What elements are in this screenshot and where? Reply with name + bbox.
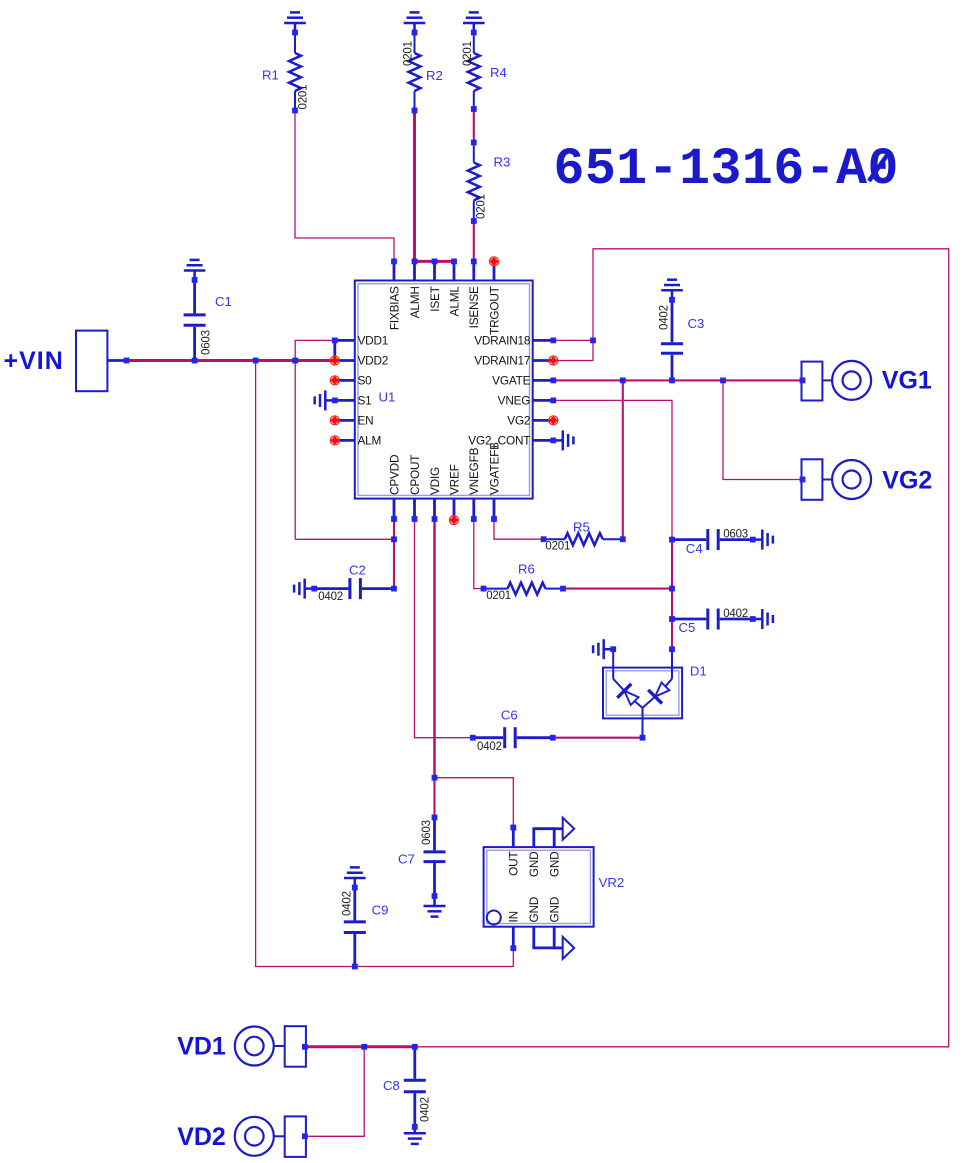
svg-text:FIXBIAS: FIXBIAS [387,286,401,330]
connector VG2 [802,459,872,500]
pin VDD2 stub [335,359,355,362]
capacitor C8 [404,1047,426,1127]
node VD2 branch [361,1044,367,1050]
node VG1 pin [800,378,806,384]
pin S0 stub [335,379,355,382]
svg-text:C3: C3 [688,316,705,331]
pin VDRAIN17 stub [533,359,554,362]
svg-text:VG2: VG2 [882,466,932,494]
node C1 bottom [192,358,198,364]
svg-text:VD1: VD1 [177,1033,226,1061]
capacitor C3 [661,300,683,381]
pin ALML stub [453,261,456,280]
connector VD2 [235,1116,306,1157]
wire R4 to R3 [473,109,475,143]
no-connect VDRAIN17 [549,356,558,365]
wire to VR2 OUT [435,778,514,828]
pin S1 stub [335,399,355,402]
no-connect VG2 [549,416,558,425]
svg-text:0201: 0201 [462,41,474,66]
node C3 top [669,297,675,303]
svg-text:0201: 0201 [297,85,309,110]
no-connect VREF [449,516,458,525]
pin VGATE stub [533,379,554,382]
connector VG1 [802,361,872,401]
ground (top of R1) [284,12,306,32]
wire +VIN to VDD2 [127,359,335,362]
wire R3 to ISENSE [473,221,475,261]
node R6 column junction [669,586,675,592]
op-amp U1 body [355,281,533,499]
svg-text:0201: 0201 [486,590,511,602]
svg-text:ALML: ALML [447,286,461,317]
svg-text:GND: GND [527,852,541,878]
wire bracket to arrow bottom [554,947,563,950]
ground (top of C1) [184,260,206,280]
svg-text:C4: C4 [686,541,703,556]
pin CPOUT stub [413,499,416,519]
node VNEG [550,398,556,404]
wire VNEGFB to R6 [474,519,484,589]
resistor R1 [289,33,301,111]
svg-text:CPOUT: CPOUT [408,455,422,495]
wire top bus ALMH-ISET-ALML [415,260,455,263]
wire to CPVDD column [295,538,394,540]
wire VDIG to C7 [433,778,435,818]
no-connect ALM [330,436,339,445]
node VDIG corner [432,775,438,781]
svg-text:VDRAIN17: VDRAIN17 [474,354,530,368]
svg-text:ALM: ALM [358,433,382,447]
node R6 right [560,586,566,592]
ground (C5 right) [753,609,773,629]
wire C4/C5 column down to D1 [671,540,673,650]
node C5 ground [750,616,756,622]
node C3 bottom [669,378,675,384]
svg-text:VREF: VREF [447,464,461,495]
wire bracket to arrow top [554,827,563,830]
svg-text:CPVDD: CPVDD [387,455,401,495]
wire CPOUT to C6 [415,519,473,738]
wire C6 to D1 [553,737,643,739]
svg-text:VDIG: VDIG [428,467,442,495]
resistor R4 [468,33,480,110]
pin ALMH stub [413,261,416,280]
svg-text:VDD2: VDD2 [358,354,389,368]
node R4 bottom [471,106,477,112]
wire VR2 IN to +VIN riser [256,361,514,967]
node D1 right [669,646,675,652]
pin TRGOUT stub [493,261,496,280]
node C9 top [352,885,358,891]
node C1 top [192,277,198,283]
node CPOUT [412,516,418,522]
node C9 bottom [352,964,358,970]
svg-text:U1: U1 [379,390,396,405]
svg-text:S1: S1 [358,393,372,407]
ground (top of R2) [404,12,426,32]
pin VG2_CONT stub [533,439,554,442]
svg-text:VG1: VG1 [882,366,932,394]
pin 1 marker circle of VR2 [487,911,501,925]
wire VGATE to VG1 [553,379,801,381]
svg-text:R6: R6 [518,562,535,577]
connector +VIN [76,331,107,392]
svg-text:R1: R1 [262,68,279,83]
node VD2 pin [302,1133,308,1139]
svg-text:0402: 0402 [342,891,354,916]
svg-text:0402: 0402 [477,741,502,753]
pin OUT stub [512,828,515,848]
node VIN riser [253,358,259,364]
diode D1 (bidirectional TVS) [603,649,682,738]
svg-text:TRGOUT: TRGOUT [487,286,501,335]
pin VDRAIN18 stub [533,339,554,342]
pin IN stub [512,927,515,949]
svg-text:GND: GND [527,897,541,923]
capacitor C7 [424,817,446,896]
node C4 ground [750,537,756,543]
svg-text:VG2: VG2 [507,413,530,427]
no-connect VDD2 [330,356,339,365]
node VGATE [550,378,556,384]
pin CPVDD stub [393,499,396,519]
node C4 tap [669,537,675,543]
svg-text:0603: 0603 [200,330,212,355]
node ALMH [412,259,418,265]
svg-text:R4: R4 [490,65,507,80]
svg-text:0201: 0201 [476,194,488,219]
wire VG2 branch [723,380,802,479]
svg-text:C6: C6 [501,708,518,723]
svg-text:VGATEFB: VGATEFB [487,442,501,495]
svg-text:VD2: VD2 [177,1123,226,1151]
node R3 top [471,140,477,146]
node R5 riser top [620,378,626,384]
node R2 bottom [412,108,418,114]
capacitor C1 [184,280,206,361]
wire CPVDD column down to C2 [393,519,395,589]
node VDD1 [332,338,338,344]
node VR2 OUT [510,825,516,831]
svg-text:R2: R2 [426,68,443,83]
svg-text:VNEG: VNEG [498,393,531,407]
node R1 top [292,30,298,36]
pin VNEGFB stub [472,499,475,519]
node ISET [432,259,438,265]
node C2 right [391,586,397,592]
node ISENSE [471,259,477,265]
node C7 bottom [432,893,438,899]
no-connect S0 [330,376,339,385]
ground (D1 left pin) [593,639,613,659]
resistor R3 [468,143,480,222]
wire VGATEFB to R5 [494,519,544,539]
svg-text:IN: IN [507,911,521,922]
svg-text:0603: 0603 [723,529,748,541]
power arrow top [563,818,575,840]
svg-text:0402: 0402 [318,591,343,603]
svg-text:0402: 0402 [659,305,671,330]
node R4 top [471,30,477,36]
pin ISENSE stub [472,261,475,280]
svg-text:VR2: VR2 [599,875,625,890]
resistor R5 [544,533,623,545]
wire VD1 to C8 [306,1045,415,1048]
svg-text:R3: R3 [494,155,511,170]
node C6 left [470,735,476,741]
ground (top of C3) [661,280,683,300]
pin ISET stub [433,261,436,280]
pin VGATEFB stub [493,499,496,519]
svg-text:0402: 0402 [723,608,748,620]
svg-text:0201: 0201 [403,41,415,66]
wire VDD riser down [294,361,296,540]
wire VDRAIN17 [553,340,593,360]
node VDD riser [292,358,298,364]
svg-text:0603: 0603 [421,820,433,845]
node D1 bottom [640,735,646,741]
node R1 bottom [292,108,298,114]
svg-text:ALMH: ALMH [408,286,422,318]
svg-text:C9: C9 [372,903,389,918]
node CPVDD [391,516,397,522]
wire R5 riser [622,380,624,539]
pin VREF stub [453,499,456,519]
pin stub of +VIN connector [107,359,126,362]
svg-text:C1: C1 [215,294,232,309]
ground (C8 bottom) [404,1123,426,1144]
ground (top of R4) [463,12,485,32]
svg-text:ISENSE: ISENSE [467,286,481,328]
capacitor C5 [672,609,753,630]
node +VIN stub [124,358,130,364]
ground (VG2_CONT) [553,430,573,450]
svg-text:0201: 0201 [545,541,570,553]
pin FIXBIAS stub [393,261,396,280]
svg-text:C5: C5 [679,620,696,635]
node R2 top [412,30,418,36]
wire R1 to FIXBIAS [295,111,394,262]
node C6 right [550,735,556,741]
node VDIG [432,516,438,522]
capacitor C9 [344,888,366,967]
svg-text:C2: C2 [349,563,366,578]
node VNEGFB [471,516,477,522]
node S1 [332,398,338,404]
node C8 top [412,1044,418,1050]
svg-text:C7: C7 [398,852,415,867]
capacitor C2 [314,578,394,599]
capacitor C4 [672,529,753,550]
svg-text:651-1316-A0: 651-1316-A0 [554,141,899,199]
resistor R6 [484,583,564,595]
power arrow bottom [563,937,575,959]
node D1 left [610,646,616,652]
connector VD1 [235,1026,306,1067]
node VG2 branch [720,378,726,384]
svg-text:ISET: ISET [428,286,442,311]
svg-text:D1: D1 [690,664,707,679]
node R5 right [620,536,626,542]
ground (C7 bottom) [424,896,446,917]
pin ALM stub [335,439,355,442]
svg-text:+VIN: +VIN [4,347,64,375]
ground (top of C9) [344,867,366,887]
svg-text:GND: GND [548,852,562,878]
node C8 bottom [412,1124,418,1130]
node VDRAIN18 [550,338,556,344]
svg-text:0402: 0402 [420,1097,432,1122]
svg-text:OUT: OUT [507,852,521,876]
svg-text:VGATE: VGATE [492,373,530,387]
node ALML [451,259,457,265]
svg-text:VNEGFB: VNEGFB [467,447,481,495]
no-connect EN [330,416,339,425]
svg-text:VDRAIN18: VDRAIN18 [474,333,531,347]
ground (S1) [315,390,335,410]
wire VDD1 branch [295,340,335,360]
node C7 top [432,815,438,821]
node R6 left [481,586,487,592]
ground (C4 right) [753,530,773,550]
node VR2 IN [510,945,516,951]
node VG2 pin [800,477,806,483]
node CPVDD corner [391,536,397,542]
node R3 bottom [471,218,477,224]
svg-text:GND: GND [548,897,562,923]
node FIXBIAS [391,259,397,265]
capacitor C6 [473,727,553,748]
GND bracket bottom [534,927,554,948]
pin VG2 stub [533,419,554,422]
node VGATEFB [491,516,497,522]
pin VDIG stub [433,499,436,519]
node R5 left [541,536,547,542]
node VD1 pin [302,1044,308,1050]
regulator VR2 body [484,847,594,927]
tie VDD1-VDD2 [333,340,336,360]
wire R2 to ALMH [413,111,416,262]
svg-text:C8: C8 [383,1078,400,1093]
node C2 left [311,586,317,592]
wire VNEG [553,400,672,539]
GND bracket top [534,829,554,847]
wire VD2 branch [306,1047,364,1137]
svg-text:EN: EN [358,413,374,427]
resistor R2 [409,33,421,111]
svg-text:S0: S0 [358,373,373,387]
no-connect TRGOUT [490,257,499,266]
pin VDD1 stub [335,339,355,342]
node VDRAIN18 corner [590,338,596,344]
pin VNEG stub [533,399,554,402]
node VG2_CONT [550,438,556,444]
ground (C2 left) [294,579,314,599]
pin EN stub [335,419,355,422]
svg-text:R5: R5 [573,520,590,535]
node C5 tap [669,616,675,622]
slash of zero in title [869,151,890,181]
svg-text:VDD1: VDD1 [358,333,389,347]
wire R6 to C4/C5 column [563,588,672,590]
wire VDRAIN18 loop to VD1 [415,249,949,1047]
wire VDIG riser [433,519,436,778]
